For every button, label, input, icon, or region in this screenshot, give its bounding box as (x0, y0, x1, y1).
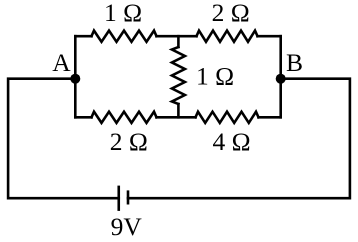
wire: inner loop left side (node A up to top rail, down to bottom rail) (74, 36, 77, 117)
resistor R3 value 2 ohm (bottom left) (92, 112, 157, 123)
resistor R1 value 1 ohm (top left) (92, 31, 157, 42)
wire: node A to outer left side down to battery left lead (8, 79, 119, 199)
resistor R2 value 2 ohm (top right) (197, 31, 258, 42)
wire: top rail middle segment (R1 to R2 through middle junction) (157, 35, 197, 38)
svg-text:4 Ω: 4 Ω (212, 127, 250, 156)
resistor R5 value 1 ohm (middle vertical) (172, 47, 185, 104)
wire: bottom rail middle segment (R3 to R4 through middle junction) (157, 116, 196, 119)
node A junction dot (70, 74, 80, 84)
svg-text:2 Ω: 2 Ω (110, 127, 148, 156)
battery BT1 short negative plate (127, 190, 130, 204)
wire: bottom rail left segment (A corner to resistor R3) (75, 116, 91, 119)
resistor R4 value 4 ohm (bottom right) (196, 112, 259, 123)
svg-text:9V: 9V (111, 212, 143, 241)
wire: middle branch bottom stub (R5 to bottom rail) (177, 104, 180, 117)
wire: top rail right segment (R2 to B corner) (258, 35, 281, 38)
svg-text:A: A (52, 48, 71, 77)
svg-text:2 Ω: 2 Ω (212, 0, 250, 27)
battery BT1 long positive plate (117, 186, 120, 211)
svg-text:1 Ω: 1 Ω (104, 0, 142, 27)
wire: bottom rail right segment (R4 to B corner) (259, 116, 281, 119)
wire: inner loop right side (node B up to top rail, down to bottom rail) (279, 36, 282, 117)
wire: top rail left segment (A corner to resistor R1) (75, 35, 91, 38)
node B junction dot (276, 74, 286, 84)
wire: middle branch top stub (top rail to R5) (177, 36, 180, 47)
svg-text:1 Ω: 1 Ω (196, 61, 234, 90)
svg-text:B: B (286, 48, 303, 77)
wire: battery right lead along bottom and up right side to node B (128, 79, 350, 199)
